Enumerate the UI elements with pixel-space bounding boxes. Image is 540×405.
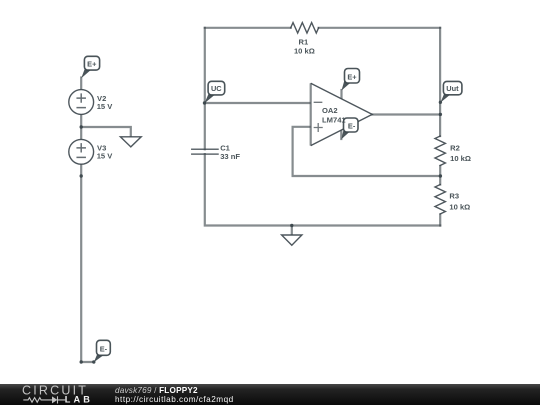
- svg-text:davsk769 / FLOPPY2: davsk769 / FLOPPY2: [115, 386, 198, 395]
- svg-text:10 kΩ: 10 kΩ: [294, 46, 315, 55]
- svg-text:Uut: Uut: [446, 84, 459, 93]
- svg-text:LM741: LM741: [322, 115, 346, 124]
- svg-text:E-: E-: [100, 345, 108, 354]
- svg-text:E+: E+: [347, 73, 357, 82]
- svg-text:10 kΩ: 10 kΩ: [450, 154, 471, 163]
- svg-text:33 nF: 33 nF: [220, 152, 240, 161]
- svg-text:E+: E+: [87, 59, 97, 68]
- svg-text:R2: R2: [450, 144, 460, 153]
- svg-text:LAB: LAB: [65, 395, 93, 405]
- svg-text:R3: R3: [449, 192, 459, 201]
- svg-text:15 V: 15 V: [97, 102, 114, 111]
- svg-text:E-: E-: [348, 122, 356, 131]
- svg-text:UC: UC: [211, 84, 222, 93]
- svg-text:10 kΩ: 10 kΩ: [449, 202, 470, 211]
- svg-text:OA2: OA2: [322, 106, 338, 115]
- svg-text:15 V: 15 V: [97, 152, 114, 161]
- svg-text:http://circuitlab.com/cfa2mqd: http://circuitlab.com/cfa2mqd: [115, 395, 234, 404]
- svg-text:R1: R1: [299, 37, 309, 46]
